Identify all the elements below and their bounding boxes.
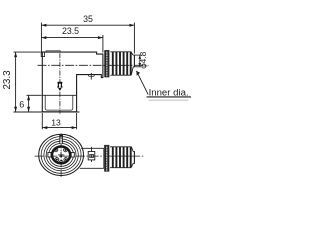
dimension 6 extension xyxy=(27,94,42,96)
faint smudge under label xyxy=(149,100,189,102)
center cross xyxy=(60,152,62,158)
top pad on body xyxy=(46,51,60,52)
horizontal centerline of tube xyxy=(38,64,149,66)
ring 3 xyxy=(44,139,78,171)
ring 2 xyxy=(41,137,81,174)
svg-text:35: 35 xyxy=(83,14,93,24)
bottom view horizontal centerline xyxy=(35,155,145,157)
gate tick on tube bottom xyxy=(88,75,95,77)
underline of Inner dia. xyxy=(147,96,191,98)
svg-text:23.3: 23.3 xyxy=(2,70,13,90)
bottom view vertical centerline xyxy=(60,134,62,177)
dimension 13 line xyxy=(42,127,76,129)
body step line xyxy=(42,94,76,96)
bottom view outer ring xyxy=(39,134,84,175)
dimension 23.5 line xyxy=(41,37,103,39)
barb tip (side view) xyxy=(131,53,134,75)
pins xyxy=(54,148,68,164)
top-left tab xyxy=(41,52,44,57)
ring 5 xyxy=(49,143,74,166)
neck outline top xyxy=(81,147,104,149)
dimension 35 extension right xyxy=(133,23,135,54)
dark shield band xyxy=(52,147,70,164)
dimension phi4.8 ticks xyxy=(135,54,142,56)
svg-text:6: 6 xyxy=(19,100,24,110)
ring 4 xyxy=(46,141,76,168)
barb collar (bottom view) xyxy=(105,145,109,171)
barb collar (side view) xyxy=(105,51,109,77)
dimension 23.3 bottom extension xyxy=(14,111,80,113)
dimension 13 extension right xyxy=(76,113,78,129)
dimension 23.3 top extension xyxy=(14,51,41,53)
svg-text:φ4.8: φ4.8 xyxy=(138,51,148,68)
keyway notch xyxy=(60,135,62,144)
dimension 13 extension left xyxy=(41,113,43,129)
barb tip (bottom view) xyxy=(131,147,134,167)
barb ribs (side view) xyxy=(110,52,131,75)
dimension 6 line (vertical) xyxy=(28,95,30,112)
dimension 23.3 line (left, vertical) xyxy=(15,52,17,112)
latch box on neck xyxy=(88,152,95,160)
dimension 23.5 extension right xyxy=(102,35,104,53)
svg-text:23.5: 23.5 xyxy=(62,26,79,36)
side view body outline xyxy=(42,52,103,112)
barb ribs (bottom view) xyxy=(110,147,131,168)
dimension 35 extension left xyxy=(40,23,42,54)
pin symbol under body xyxy=(57,83,62,87)
svg-text:Inner dia.: Inner dia. xyxy=(149,88,189,99)
east key square xyxy=(71,153,74,158)
neck outline bottom xyxy=(80,167,104,169)
vertical centerline of body xyxy=(59,53,61,82)
neck end face xyxy=(103,148,105,168)
body lower rounded rect xyxy=(45,95,73,110)
west key square xyxy=(48,153,51,158)
leader line for Inner dia. xyxy=(136,71,148,95)
dimension phi4.8 line xyxy=(139,55,141,67)
svg-text:13: 13 xyxy=(51,118,61,128)
dimension 35 line xyxy=(41,24,134,26)
